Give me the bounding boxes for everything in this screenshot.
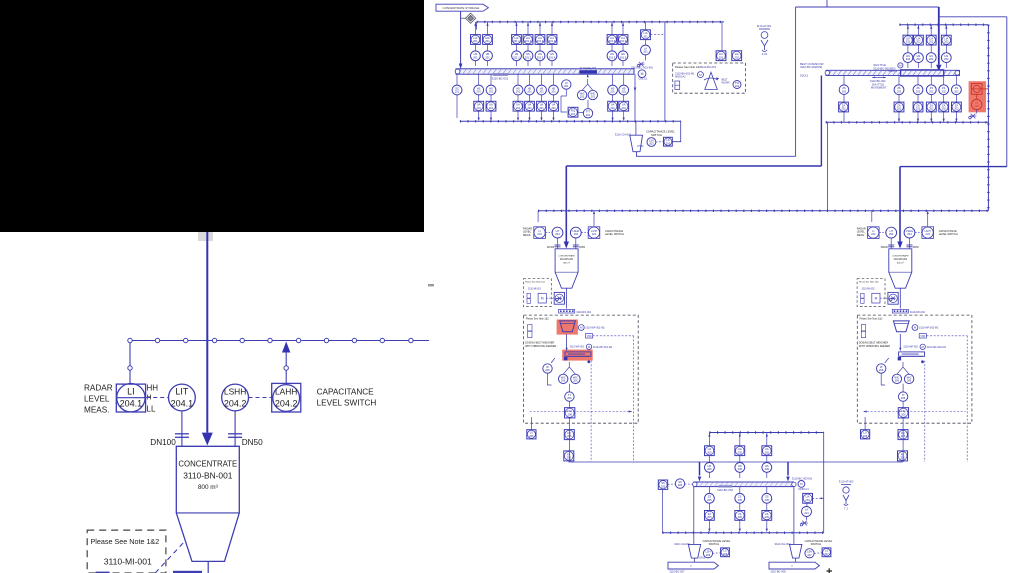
instrument circle below belt 1 (474, 85, 484, 95)
instrument square LIA 201.4 (547, 35, 557, 45)
instrument square LS below box (861, 430, 870, 439)
svg-text:204: 204 (555, 232, 560, 236)
instrument square below shuttle (939, 102, 949, 112)
instrument LI 204.1 (shared display, square+circle) (116, 384, 145, 412)
motor M circle belt (920, 344, 925, 349)
instrument circle above conveyor 3 (735, 463, 745, 473)
wire: column above shuttle (917, 25, 919, 68)
node: junction circle on data link (184, 338, 188, 342)
svg-text:202: 202 (916, 89, 921, 93)
svg-text:800 m³: 800 m³ (897, 261, 904, 264)
instrument circle HS 201 (471, 51, 481, 61)
wire: drop to conveyor-3 left with thick arrow (699, 462, 701, 476)
wire: long scan data rail y=210.8 (538, 210, 988, 212)
svg-text:201: 201 (527, 90, 532, 94)
svg-text:WITH VIBRATING FEEDER: WITH VIBRATING FEEDER (859, 345, 890, 348)
instrument circle below shuttle (913, 85, 923, 95)
wire: hopper-2 thick feed drop x=900 (899, 167, 901, 242)
svg-text:201: 201 (489, 106, 494, 110)
belt conveyor 3110-BC-003 body (694, 482, 794, 487)
instrument square above shuttle (926, 35, 936, 45)
svg-text:205: 205 (707, 498, 712, 502)
instrument circle LA 204 (802, 507, 812, 517)
svg-text:DSLK1: DSLK1 (800, 74, 809, 78)
instrument square LS 207 (822, 548, 831, 557)
wire: top signal rail of shuttle section (899, 24, 988, 26)
wire: weigher Y link 2 (563, 362, 575, 374)
wire: branch y=16.8 to far right (939, 16, 1007, 18)
instrument square below conveyor 3 (705, 511, 715, 521)
instrument square below shuttle (913, 102, 923, 112)
wire: belt side scan drop (924, 361, 926, 462)
wire: weigher output signal line y=462 (569, 461, 903, 463)
wire: signal riser x=827.5 from shuttle rail to scan rail (827, 122, 829, 211)
svg-text:202: 202 (954, 107, 959, 111)
instrument circle below belt 1 (513, 85, 523, 95)
instrument LAHH 204.2 (square+circle) (272, 383, 301, 412)
svg-text:201: 201 (473, 55, 478, 59)
label band 3110-BC-001 (493, 73, 508, 76)
svg-text:Please See Note 1&2: Please See Note 1&2 (91, 537, 160, 546)
svg-text:201: 201 (485, 55, 490, 59)
belt weigher triangle symbol (705, 72, 718, 89)
wire: column below belt 1 (541, 74, 543, 118)
wire: column below shuttle (917, 76, 919, 123)
svg-text:DN50: DN50 (913, 247, 920, 249)
wire: column above shuttle (930, 25, 932, 68)
wire: bin outlet (207, 561, 209, 573)
svg-text:202: 202 (906, 40, 911, 44)
svg-text:3110-BA-001: 3110-BA-001 (701, 65, 717, 69)
wire: hopper-1 feed horizontal y=166 (566, 165, 821, 167)
instrument square below shuttle (894, 102, 904, 112)
wire: column LIA 201.1 above belt 1 (516, 22, 518, 66)
svg-text:206: 206 (723, 552, 728, 556)
svg-text:206: 206 (567, 396, 572, 400)
instrument square below belt 1 (486, 101, 496, 111)
dashed box: dosing belt weigher with vibrating feeder (524, 315, 639, 423)
svg-text:M: M (875, 297, 878, 301)
instrument circle below belt 1 (549, 85, 559, 95)
wire: column LIA 201.2 above belt 1 (527, 22, 529, 66)
vessel 3110-BN-001 (555, 249, 578, 288)
wire: column below belt 1 (612, 74, 614, 118)
wire: dashed link square-circle-belt (668, 483, 676, 485)
svg-text:Please See Note 1&2: Please See Note 1&2 (675, 65, 701, 69)
instrument square above conveyor 3 (735, 446, 745, 456)
chute 3110-CH-004 (688, 544, 700, 558)
wire: hopper-2 feed horizontal y=166.6 (900, 166, 1007, 168)
instrument circle HS 201 (483, 51, 493, 61)
instrument circle below belt 1 (619, 85, 629, 95)
wire: column below shuttle (930, 76, 932, 123)
wire: chute outlet to transfer line (637, 152, 796, 157)
wire: column LIA 201.5 above belt 1 (611, 22, 613, 66)
wire: column below belt 1 (553, 74, 555, 118)
svg-text:204.2: 204.2 (275, 399, 298, 409)
instrument circle TT 206 (898, 392, 907, 401)
wire: weigher link (561, 89, 566, 96)
svg-text:204: 204 (907, 232, 912, 236)
restriction orifice 3110-RO-002 dotted band (892, 309, 908, 313)
wire: top edge tick at x=827 (826, 0, 828, 7)
wire: W link (881, 358, 889, 385)
instrument circle HS 201.5 (607, 51, 617, 61)
svg-text:LAHH: LAHH (275, 387, 297, 397)
svg-text:206: 206 (907, 379, 912, 383)
svg-text:=: = (791, 564, 793, 568)
instrument circle ZS 202 (839, 85, 849, 95)
arrow: feeder to belt (899, 334, 901, 351)
svg-text:206: 206 (568, 412, 573, 416)
instrument square above conveyor 3 (762, 446, 772, 456)
svg-text:205: 205 (738, 498, 743, 502)
node: shuttle band right pulley (955, 71, 960, 76)
wire: chute 2 outlet to banner (794, 558, 796, 562)
svg-text:201.2: 201.2 (525, 39, 532, 43)
dosing belt symbol (899, 352, 925, 356)
svg-text:206: 206 (879, 368, 884, 372)
arrow: weigh frame signal up (587, 79, 589, 84)
wire: LSHH nozzle drop (234, 411, 236, 446)
svg-text:201: 201 (527, 106, 532, 110)
svg-text:7.1: 7.1 (844, 507, 848, 511)
svg-text:203: 203 (666, 141, 671, 145)
wire: rail riser x=664.9 (664, 22, 666, 121)
restriction orifice 3110-RO-001 dotted band (559, 309, 575, 313)
wire: dashed LI-LIT (546, 232, 553, 234)
svg-text:CHS1: CHS1 (637, 145, 644, 148)
wire: right vertical rail x=988.4 (987, 25, 989, 211)
instrument circle WIC 206.2 (904, 374, 913, 383)
node: junction circle on data link (296, 338, 300, 342)
wire: transfer route top horizontal y=7 (796, 6, 939, 8)
svg-text:202: 202 (929, 107, 934, 111)
svg-text:3110-BC-003-M1: 3110-BC-003-M1 (792, 476, 813, 480)
arrow: feed line arrowhead into tank (202, 433, 213, 446)
svg-text:3110-WF-001: 3110-WF-001 (570, 345, 585, 348)
instrument circle FIT 201 (583, 109, 592, 118)
wire: column LIA 201 above belt 1 (474, 22, 476, 66)
instrument square below belt 1 (525, 101, 535, 111)
wire: belt discharge marker (921, 360, 924, 363)
svg-text:201: 201 (473, 39, 478, 43)
svg-text:3110-BN-002: 3110-BN-002 (894, 259, 908, 261)
wire: column above shuttle (907, 25, 909, 68)
flag: discharge banner 2 (769, 562, 819, 569)
instrument square LIA 201.2 (523, 35, 533, 45)
svg-text:WGHR: WGHR (722, 81, 730, 84)
svg-text:3110-MI-002: 3110-MI-002 (862, 289, 876, 291)
wire: column below belt 1 (529, 74, 531, 118)
motor M circle feeder (578, 325, 584, 331)
svg-text:MEAS.: MEAS. (523, 233, 531, 237)
label: 3110-BC-002 SHUTTLE MOVEMENT (872, 76, 886, 78)
instrument square LS 206b (721, 548, 730, 557)
wire: box side scan riser (966, 336, 968, 462)
svg-text:206: 206 (529, 434, 534, 438)
flag: discharge banner 1 (668, 562, 718, 569)
instrument circle below belt 1 (537, 85, 547, 95)
svg-text:201.3: 201.3 (537, 39, 544, 43)
svg-text:201.5: 201.5 (609, 39, 616, 43)
svg-text:CONCENTRATE: CONCENTRATE (558, 255, 575, 258)
svg-text:205: 205 (765, 515, 770, 519)
mixer symbol square (888, 292, 898, 304)
svg-text:201: 201 (622, 106, 627, 110)
svg-text:3110-MI-001: 3110-MI-001 (104, 557, 152, 567)
svg-text:201: 201 (586, 113, 591, 117)
arrow: feed onto belt conveyor 1 (459, 64, 463, 70)
instrument square below belt 1 (549, 101, 559, 111)
node: junction circle on data link (324, 338, 328, 342)
svg-text:3110-CH-001: 3110-CH-001 (615, 133, 632, 137)
instrument square LS below box (527, 430, 536, 439)
svg-text:DN100: DN100 (150, 438, 176, 447)
wire: drop to LIA-202 squares pair (721, 22, 723, 50)
svg-text:205: 205 (678, 483, 683, 487)
wire: LAHH rise to rail with arrow (593, 214, 595, 227)
svg-text:201: 201 (477, 106, 482, 110)
wire: column below belt 1 (478, 74, 480, 118)
wire: rail drop to radar LI (537, 211, 539, 222)
svg-text:3110-BN-001: 3110-BN-001 (183, 471, 233, 481)
svg-text:VSD: VSD (587, 336, 592, 338)
instrument circle W 206 (877, 364, 886, 373)
instrument LI square+circle (radar level) (868, 227, 880, 239)
instrument circle below conveyor 3 (735, 493, 745, 503)
svg-text:205: 205 (765, 498, 770, 502)
instrument square left of conveyor 3 (658, 480, 667, 489)
instrument circle WIC 201.2 (588, 90, 597, 99)
starburst below LA 204 (800, 521, 808, 526)
wire: column LIA 201.6 above belt 1 (622, 22, 624, 66)
instrument square HIA 201 (483, 35, 493, 45)
svg-text:201: 201 (551, 106, 556, 110)
flange DN100 (175, 433, 189, 435)
black overlay rectangle (video mask) (0, 0, 424, 232)
wire: column LIA 201.4 above belt 1 (551, 22, 553, 66)
vessel 3110-BN-001 concentrate bin shell (176, 446, 239, 561)
vibrating feeder trapezoid (893, 321, 909, 332)
flag: CONCENTRATE STORAGE banner (436, 4, 488, 11)
svg-text:204: 204 (537, 232, 542, 236)
highlight: red box on dosing belt (562, 350, 593, 361)
instrument circle LIT (552, 227, 563, 238)
svg-text:202: 202 (942, 89, 947, 93)
motor M circle shuttle (898, 63, 903, 68)
svg-text:201.1: 201.1 (513, 55, 520, 59)
svg-text:3110-WF-002-M1: 3110-WF-002-M1 (927, 346, 947, 349)
wire: VSD scan link (593, 335, 634, 337)
svg-text:202: 202 (897, 107, 902, 111)
svg-text:206: 206 (706, 553, 711, 557)
instrument circle below conveyor 3 (705, 493, 715, 503)
arrow: shuttle feed arrowhead (936, 65, 941, 72)
node: junction circle on data link (380, 338, 384, 342)
wire: column below belt 1 (623, 74, 625, 118)
svg-text:LEVEL SWITCH: LEVEL SWITCH (317, 399, 377, 408)
svg-text:Please See Note 1&2: Please See Note 1&2 (860, 318, 884, 321)
plus fold mark (827, 568, 833, 573)
svg-text:202: 202 (929, 40, 934, 44)
wire: belt side scan drop (590, 361, 592, 462)
svg-text:205: 205 (738, 467, 743, 471)
wire: vessel outlet (566, 288, 568, 308)
note box 3110-MI-001 (523, 279, 551, 307)
instrument circle HS 201.2 (523, 51, 533, 61)
svg-text:201.6: 201.6 (620, 55, 627, 59)
wire: weigher Y link (582, 84, 593, 90)
motor M circle feeder (912, 325, 918, 331)
wire: drop from rail to LIA 201 (645, 22, 647, 30)
svg-text:202: 202 (916, 57, 921, 61)
chute 3110-CH-001 (630, 135, 643, 152)
svg-text:205: 205 (738, 515, 743, 519)
svg-text:CONCENTRATE: CONCENTRATE (892, 255, 909, 258)
svg-text:201: 201 (591, 95, 596, 99)
svg-text:SWITCH: SWITCH (651, 133, 662, 137)
svg-text:LSHH: LSHH (224, 387, 246, 397)
instrument square below shuttle (952, 102, 962, 112)
wire: dashed leader from note box to mixer (155, 542, 184, 573)
small stacked squares in weigher box (528, 325, 532, 331)
wire: box side scan riser (633, 336, 635, 462)
shuttle carriage double line (901, 70, 944, 76)
motor starburst for BC-001 drive (637, 62, 644, 67)
small gray dash marker (428, 284, 434, 286)
node: junction circle on data link (155, 338, 159, 342)
note box: belt weigher 3110-BA-001 (673, 63, 746, 93)
svg-text:201: 201 (643, 34, 648, 38)
svg-text:205: 205 (765, 450, 770, 454)
svg-text:MEAS.: MEAS. (84, 406, 109, 415)
wire: LAHH rise to rail with arrow (927, 214, 929, 227)
instrument LSHH 204.2 (222, 384, 249, 411)
motor M circle BC-001-M1 (638, 70, 646, 78)
small stacked squares in note box (861, 293, 864, 298)
svg-text:201: 201 (610, 90, 615, 94)
instrument square lower (898, 451, 908, 461)
svg-text:202: 202 (735, 84, 740, 88)
node: junction circle on data link (128, 338, 132, 342)
svg-text:3110-AT-001: 3110-AT-001 (757, 24, 772, 28)
svg-text:LL: LL (147, 405, 156, 414)
svg-text:204: 204 (574, 232, 579, 236)
node: junction circle on data link (352, 338, 356, 342)
wire: column below conveyor 3 (708, 487, 710, 530)
svg-text:DN50: DN50 (579, 247, 586, 249)
svg-text:202: 202 (944, 40, 949, 44)
wire: FIQ column down (568, 418, 570, 462)
node: belt feed dot (564, 357, 567, 360)
wire: inner dashed rail of weigher box (864, 411, 966, 413)
svg-text:202: 202 (916, 40, 921, 44)
wire: dashed LSA to LS (656, 141, 664, 143)
svg-text:201: 201 (564, 84, 569, 88)
svg-text:206: 206 (573, 379, 578, 383)
instrument circle below shuttle (926, 85, 936, 95)
svg-text:MEAS.: MEAS. (857, 233, 865, 237)
wire: belt 1 discharge drop (634, 74, 636, 121)
svg-text:3110-WF-001: 3110-WF-001 (580, 66, 597, 70)
node: shuttle band left pulley (825, 71, 830, 76)
svg-text:3110-MI-001: 3110-MI-001 (528, 289, 542, 291)
instrument circle WIC 206.2 (571, 374, 580, 383)
svg-text:800 m³: 800 m³ (563, 261, 570, 264)
svg-text:201: 201 (622, 90, 627, 94)
wire: below-shuttle column ZS (843, 76, 845, 123)
instrument circle LIT (886, 227, 897, 238)
svg-text:204: 204 (871, 232, 876, 236)
svg-text:LEVEL SWITCH: LEVEL SWITCH (939, 232, 958, 236)
svg-text:201: 201 (516, 106, 521, 110)
svg-text:201.5: 201.5 (609, 55, 616, 59)
svg-text:SHULT1: SHULT1 (888, 70, 898, 73)
instrument square below FIQ (898, 430, 908, 440)
svg-text:202: 202 (916, 107, 921, 111)
instrument square LIA 201.3 (535, 35, 545, 45)
svg-text:204: 204 (889, 232, 894, 236)
wire: hopper-1 thick feed drop x=566.3 (565, 166, 567, 242)
wire: dashed LSHH-LAHH (581, 232, 588, 234)
wire: drop from data link to LI instrument (129, 343, 131, 384)
small square pair in weigher box (675, 81, 680, 90)
wire: corner down from rail start (476, 22, 478, 30)
wire: dashed LI-LIT (879, 232, 886, 234)
svg-text:M: M (641, 72, 644, 76)
svg-text:DN100: DN100 (547, 247, 555, 249)
svg-text:CONCENTRATE STORAGE: CONCENTRATE STORAGE (443, 6, 480, 10)
instrument square LIA 201.5 (607, 35, 617, 45)
small stacked squares in weigher box (861, 325, 865, 331)
instrument square above shuttle (941, 35, 951, 45)
wire: VSD scan link (926, 335, 967, 337)
svg-text:202: 202 (735, 55, 740, 59)
svg-text:3110-CH-002: 3110-CH-002 (775, 542, 791, 546)
svg-text:SWITCH: SWITCH (811, 542, 822, 546)
svg-text:LEVEL SWITCH: LEVEL SWITCH (605, 232, 624, 236)
wire: LIT nozzle drop to tank (557, 238, 559, 249)
instrument circle above shuttle (926, 53, 936, 63)
wire: column below shuttle (898, 76, 900, 123)
svg-text:204.1: 204.1 (171, 399, 194, 409)
valve diamond symbol (466, 13, 476, 23)
wire: column below belt 1 (456, 74, 458, 118)
wire: dashed link LI to LIT (146, 397, 168, 399)
wire: horizontal data-link line with junction dots (130, 340, 429, 342)
svg-text:206: 206 (901, 412, 906, 416)
node: junction circle on data link (240, 338, 244, 342)
svg-text:MOVEMENT: MOVEMENT (871, 86, 887, 90)
svg-text:3110-RO-001: 3110-RO-001 (576, 311, 592, 314)
instrument square FIQ 206 (565, 408, 575, 418)
svg-text:201: 201 (643, 50, 648, 54)
vessel 3110-BN-002 (889, 249, 912, 288)
wire: right riser of conveyor-3 rails (823, 433, 825, 533)
svg-text:3110-WF-002-M2: 3110-WF-002-M2 (919, 327, 939, 330)
svg-text:201.6: 201.6 (620, 39, 627, 43)
wire: rising signal from LAHH with arrow into data link (285, 345, 287, 384)
instrument square below FIQ (564, 430, 574, 440)
instrument square above shuttle (914, 35, 924, 45)
arrow: hopper 2 feed arrowhead (897, 242, 902, 249)
wire: LIT nozzle drop to tank (890, 238, 892, 249)
svg-text:M: M (541, 297, 544, 301)
wire: column below shuttle (943, 76, 945, 123)
svg-text:202: 202 (842, 89, 847, 93)
svg-text:SWITCH: SWITCH (709, 542, 720, 546)
